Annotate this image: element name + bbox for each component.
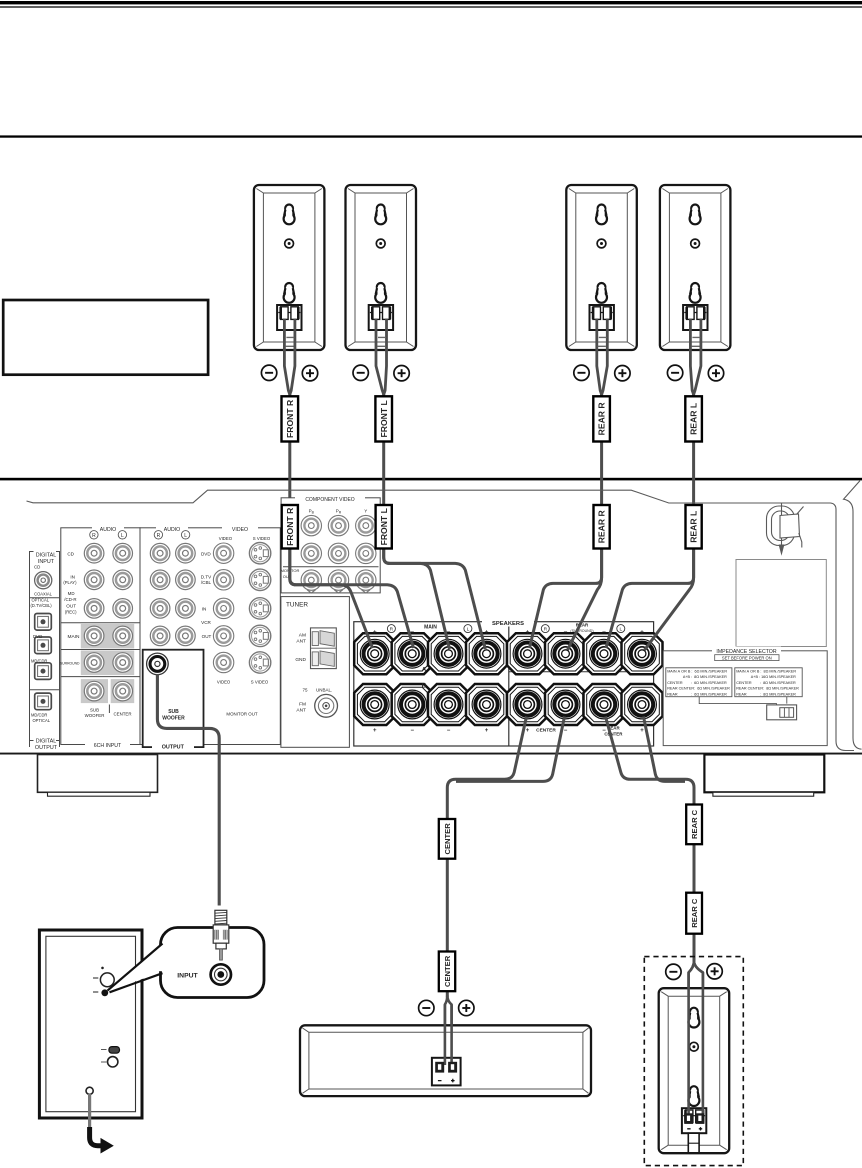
svg-text:Y: Y [364, 509, 367, 514]
optical jack MD/CDR out [35, 693, 52, 710]
svg-text:(D.TV/CBL): (D.TV/CBL) [31, 603, 53, 608]
label CENTER (cable tag) [439, 952, 455, 992]
svg-text:AM: AM [299, 633, 306, 639]
subwoofer power cord + plug arrow [86, 1087, 93, 1094]
svg-text:+: + [485, 629, 489, 636]
svg-text:COAXIAL: COAXIAL [34, 591, 52, 596]
callout pointer [108, 944, 162, 991]
wire FRONT R conductors to MAIN A R posts [290, 505, 373, 648]
svg-text:R: R [390, 627, 394, 633]
CENTER input gray zone [111, 679, 135, 703]
binding post MAIN B R- [392, 684, 433, 725]
svg-text:FRONT L: FRONT L [379, 508, 389, 545]
minus terminal mark [666, 964, 681, 979]
svg-text:DVD: DVD [33, 634, 42, 639]
svg-text:R: R [92, 533, 96, 539]
svg-text:MD: MD [68, 591, 75, 596]
6CH CD jacks R/L [84, 543, 104, 563]
FM ANT jack [315, 694, 338, 717]
label REAR C (cable tag) [686, 805, 702, 845]
svg-text:+: + [640, 728, 644, 734]
plus terminal mark [459, 1000, 474, 1015]
binding post REAR CENTER - [584, 684, 625, 725]
svg-text:−: − [602, 629, 606, 636]
wire REAR R speaker leads [597, 319, 608, 395]
svg-text:S VIDEO: S VIDEO [253, 536, 271, 541]
blank voltage area [736, 560, 826, 647]
svg-text:+: + [640, 629, 644, 636]
svg-text:MAIN: MAIN [68, 634, 81, 640]
plus terminal mark [615, 366, 630, 381]
svg-text:MD/CDR: MD/CDR [31, 658, 47, 663]
svg-text:CD: CD [34, 565, 40, 570]
svg-text:A+B : 8Ω MIN./SPEAKER: A+B : 8Ω MIN./SPEAKER [667, 675, 727, 679]
binding post REAR L- [584, 633, 625, 674]
svg-text:L: L [619, 627, 622, 633]
audio DVD jacks R/L [150, 543, 170, 563]
binding post MAIN A L+ [466, 633, 507, 674]
wire CENTER conductors over speaker [445, 1005, 452, 1066]
wire subwoofer pin cable [157, 674, 219, 906]
svg-text:S VIDEO: S VIDEO [251, 680, 269, 685]
coaxial digital CD jack [35, 572, 52, 589]
wire FRONT L speaker leads [376, 319, 387, 395]
svg-text:(REC): (REC) [65, 609, 77, 614]
binding post MAIN A R- [392, 633, 433, 674]
svg-text:VCR: VCR [201, 620, 211, 625]
plus terminal mark [708, 366, 723, 381]
svg-text:6CH INPUT: 6CH INPUT [94, 743, 122, 749]
6CH IN jacks R/L [84, 570, 104, 590]
label CENTER (cable tag) [439, 819, 455, 859]
svg-text:FRONT R: FRONT R [285, 399, 295, 438]
svg-text:DIGITAL: DIGITAL [36, 553, 57, 559]
6CH OUT jacks R/L [84, 599, 104, 619]
svg-text:A+B : 16Ω MIN./SPEAKER: A+B : 16Ω MIN./SPEAKER [736, 675, 796, 679]
svg-text:OUT: OUT [66, 604, 76, 609]
svg-text:REAR L: REAR L [689, 403, 699, 435]
COMPONENT VIDEO box [281, 498, 380, 593]
svg-text:REAR L: REAR L [689, 511, 699, 543]
svg-text:FM: FM [299, 702, 306, 708]
wire REAR C conductors from posts [606, 717, 695, 964]
wire REAR L speaker leads [690, 319, 701, 395]
wire CENTER fork to speaker terminal [445, 995, 452, 1065]
svg-text:AUDIO: AUDIO [100, 527, 116, 533]
plus terminal mark [707, 964, 722, 979]
plus terminal mark [394, 366, 409, 381]
svg-text:DIGITAL: DIGITAL [36, 738, 57, 744]
wire REAR L conductors to REAR L posts [606, 505, 694, 648]
svg-text:D.TV: D.TV [201, 574, 212, 579]
impedance table right [735, 668, 802, 697]
label REAR R (panel tag) [594, 505, 610, 549]
INPUT jack [211, 964, 231, 984]
center speaker terminal [432, 1058, 461, 1086]
receiver rear panel outline [27, 490, 855, 750]
label REAR C (cable tag) [686, 893, 702, 934]
IMPEDANCE SELECTOR box [663, 651, 827, 746]
speaker FRONT R [254, 185, 325, 350]
svg-text:B: B [422, 683, 427, 690]
DIGITAL INPUT / OUTPUT column [30, 552, 60, 748]
audio D.TV/CBL jacks R/L [150, 570, 170, 590]
svg-text:CENTER : 8Ω MIN./SPEAK: CENTER : 8Ω MIN./SPEAKER [736, 681, 796, 685]
wire FRONT L conductors to MAIN A L posts [384, 505, 450, 649]
wire REAR C fork over rear speaker [689, 961, 703, 1116]
svg-text:REAR : 6Ω MIN./SP: REAR : 6Ω MIN./SPEAKER [667, 692, 727, 696]
video/svideo jacks row [213, 543, 233, 563]
svg-text:+: + [485, 728, 489, 734]
rear center terminal clips [684, 1113, 693, 1124]
AC power cord [767, 503, 804, 554]
label FRONT R (cable tag) [282, 396, 299, 441]
binding post REAR L+ [622, 633, 663, 674]
wire REAR R drop to panel [600, 394, 603, 506]
rear center speaker [659, 988, 730, 1153]
subwoofer input terminal dot [101, 989, 108, 996]
optional rear center speaker dashed box [644, 957, 743, 1166]
svg-text:CENTER : 6Ω MIN./SPEAK: CENTER : 6Ω MIN./SPEAKER [667, 681, 727, 685]
svg-text:UNBAL.: UNBAL. [316, 687, 332, 692]
svg-text:FRONT L: FRONT L [379, 400, 389, 437]
svg-text:FRONT R: FRONT R [285, 507, 295, 546]
svg-text:OPTICAL: OPTICAL [33, 718, 51, 723]
optical jack D.TV/CBL [35, 614, 52, 631]
binding post CENTER - [545, 684, 586, 725]
svg-text:SUB: SUB [90, 707, 99, 712]
svg-text:WOOFER: WOOFER [85, 713, 105, 718]
wire REAR R conductors to REAR R posts [530, 505, 602, 648]
plus terminal mark [302, 366, 317, 381]
TUNER box [281, 597, 350, 748]
SURROUND input gray zone [81, 651, 134, 676]
svg-text:−: − [564, 728, 568, 734]
svg-text:−: − [564, 629, 568, 636]
binding post REAR CENTER + [622, 684, 663, 725]
svg-text:L: L [184, 533, 187, 539]
RCA plug [213, 910, 229, 949]
right foot [704, 755, 824, 793]
speaker FRONT L [346, 185, 417, 350]
SUB WOOFER OUTPUT box [143, 650, 204, 747]
svg-text:IN: IN [70, 575, 75, 580]
AM ANT / GND terminal [311, 628, 337, 669]
svg-text:WOOFER: WOOFER [162, 715, 185, 721]
video/svideo jacks row [213, 598, 233, 618]
binding post REAR R+ [507, 633, 548, 674]
6CH MAIN jacks R/L [84, 626, 104, 646]
speaker REAR L [660, 185, 731, 350]
binding post MAIN B L- [428, 684, 469, 725]
svg-text:TUNER: TUNER [286, 601, 308, 608]
svg-text:INPUT: INPUT [38, 559, 55, 565]
svg-text:R: R [544, 627, 548, 633]
receiver side outer edge [844, 481, 862, 750]
impedance table left [666, 668, 732, 697]
binding post MAIN A R+ [354, 633, 395, 674]
wire FRONT R speaker leads [284, 319, 295, 395]
minus terminal mark [574, 365, 589, 380]
svg-text:REAR CENTER: 6Ω MIN./SPEAKER: REAR CENTER: 6Ω MIN./SPEAKER [667, 687, 730, 691]
svg-text:REAR C: REAR C [690, 898, 699, 928]
svg-text:−: − [410, 728, 414, 734]
label FRONT L (cable tag) [375, 396, 392, 441]
subwoofer volume knob [100, 973, 114, 987]
svg-text:A: A [422, 667, 427, 674]
video/svideo jacks row [213, 570, 233, 590]
audio IN jacks R/L [150, 599, 170, 619]
svg-text:75: 75 [302, 687, 308, 692]
svg-text:R: R [157, 533, 161, 539]
svg-text:AUDIO: AUDIO [164, 527, 180, 533]
svg-text:OUTPUT: OUTPUT [162, 745, 185, 751]
video/svideo jacks row [213, 652, 233, 672]
subwoofer rear panel [39, 930, 142, 1118]
binding post CENTER + [507, 684, 548, 725]
SPEAKERS terminal box [354, 622, 654, 746]
svg-text:IMPEDANCE SELECTOR: IMPEDANCE SELECTOR [716, 649, 776, 655]
subwoofer output jack [147, 653, 169, 675]
svg-text:/CBL: /CBL [201, 580, 212, 585]
component video jacks row [301, 570, 321, 590]
audio OUT jacks R/L [150, 626, 170, 646]
svg-text:VIDEO: VIDEO [219, 536, 233, 541]
wire CENTER conductors from posts [447, 717, 526, 998]
minus terminal mark [261, 365, 276, 380]
svg-text:SPEAKERS: SPEAKERS [492, 621, 524, 627]
svg-text:MONITOR OUT: MONITOR OUT [226, 711, 257, 716]
component video jacks row [301, 515, 321, 535]
minus terminal mark [667, 365, 682, 380]
wire [0, 1, 862, 4]
rear center wires redrawn over speaker [689, 961, 703, 1116]
svg-text:COMPONENT VIDEO: COMPONENT VIDEO [305, 497, 354, 503]
callout bubble [161, 928, 265, 998]
label REAR L (panel tag) [686, 505, 702, 549]
svg-text:CENTER: CENTER [443, 955, 452, 987]
svg-text:GND: GND [295, 657, 306, 663]
label FRONT R (panel tag) [282, 505, 298, 549]
speaker REAR R [566, 185, 637, 350]
binding post MAIN B R+ [354, 684, 395, 725]
svg-text:CENTER: CENTER [443, 823, 452, 855]
svg-text:+: + [373, 728, 377, 734]
video/svideo jacks row [213, 626, 233, 646]
svg-text:/CD-R: /CD-R [64, 597, 76, 602]
svg-text:MAIN: MAIN [424, 625, 437, 631]
panel bottom line [0, 753, 862, 755]
left foot [38, 755, 158, 793]
svg-text:VIDEO: VIDEO [217, 680, 231, 685]
svg-text:ANT: ANT [296, 708, 306, 714]
wire FRONT L drop to panel [382, 394, 385, 506]
svg-text:MAIN A OR B : 8Ω MIN./SPEAKER: MAIN A OR B : 8Ω MIN./SPEAKER [736, 669, 796, 673]
optical jack DVD [35, 637, 52, 654]
svg-text:+: + [373, 629, 377, 636]
binding post MAIN A L- [428, 633, 469, 674]
rear center speaker stand stub [688, 1133, 699, 1153]
note box [3, 300, 208, 375]
svg-text:L: L [467, 627, 470, 633]
svg-text:OUTPUT: OUTPUT [35, 745, 58, 751]
svg-text:REAR CENTER: 8Ω MIN./SPEAKER: REAR CENTER: 8Ω MIN./SPEAKER [736, 687, 799, 691]
6CH SURROUND jacks R/L [84, 653, 104, 673]
svg-text:+: + [526, 629, 530, 636]
svg-text:SET BEFORE POWER ON: SET BEFORE POWER ON [722, 655, 772, 660]
svg-text:ANT: ANT [296, 639, 306, 645]
component video jacks row [301, 543, 321, 563]
AUDIO/VIDEO block [140, 528, 280, 745]
channel letters [90, 531, 98, 539]
svg-text:MAIN A OR B : 6Ω MIN./SPEAKER: MAIN A OR B : 6Ω MIN./SPEAKER [667, 669, 727, 673]
svg-text:OUT: OUT [202, 634, 212, 639]
label REAR R (cable tag) [593, 396, 610, 441]
wire REAR L drop to panel [692, 394, 695, 506]
6CH SUB WOOFER / CENTER jacks R/L [84, 681, 104, 701]
center speaker [300, 1025, 591, 1096]
svg-text:CENTER: CENTER [604, 731, 623, 736]
minus terminal mark [419, 1000, 434, 1015]
optical jack MD/CDR [35, 663, 52, 680]
svg-text:CD: CD [67, 551, 74, 556]
svg-text:REAR R: REAR R [597, 402, 607, 436]
svg-text:CENTER: CENTER [536, 728, 556, 734]
svg-text:+: + [526, 728, 530, 734]
svg-text:VIDEO: VIDEO [232, 527, 248, 533]
svg-text:(SURROUND): (SURROUND) [570, 629, 593, 633]
wire FRONT R drop to panel [288, 394, 291, 506]
label REAR L (cable tag) [685, 396, 702, 441]
svg-text:REAR R: REAR R [597, 510, 607, 544]
svg-text:REAR C: REAR C [690, 809, 699, 839]
binding post MAIN B L+ [466, 684, 507, 725]
svg-text:L: L [121, 533, 124, 539]
impedance switch [699, 697, 787, 705]
svg-text:IN: IN [202, 607, 207, 612]
svg-text:DVD: DVD [201, 551, 211, 556]
6CH INPUT block [61, 528, 140, 745]
svg-text:−: − [447, 728, 451, 734]
subwoofer power switch [109, 1047, 120, 1054]
minus terminal mark [353, 365, 368, 380]
svg-text:OPTICAL: OPTICAL [32, 598, 50, 603]
svg-text:SURROUND: SURROUND [60, 662, 80, 666]
svg-text:REAR : 8Ω MIN./SP: REAR : 8Ω MIN./SPEAKER [736, 692, 796, 696]
svg-text:CENTER: CENTER [113, 712, 131, 717]
binding post REAR R- [545, 633, 586, 674]
svg-text:(PLAY): (PLAY) [63, 580, 77, 585]
svg-text:INPUT: INPUT [177, 972, 198, 979]
svg-text:SUB: SUB [168, 709, 179, 715]
MAIN input gray zone [81, 624, 134, 649]
SUB WOOFER input gray zone [81, 679, 108, 703]
label FRONT L (panel tag) [376, 505, 392, 549]
